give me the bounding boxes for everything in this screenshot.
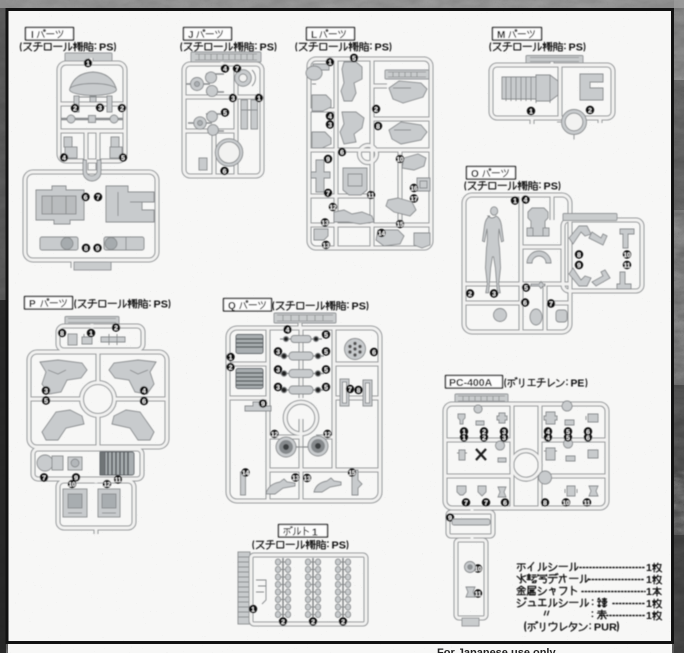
svg-text:O: O: [471, 169, 479, 180]
vertical bars right: [241, 100, 258, 129]
svg-text:L: L: [311, 30, 317, 41]
svg-text:8: 8: [376, 123, 380, 130]
svg-text:1: 1: [462, 435, 466, 442]
svg-text:2: 2: [588, 107, 592, 114]
svg-text:1: 1: [646, 598, 652, 610]
svg-text:13: 13: [322, 242, 330, 249]
svg-text:5: 5: [566, 435, 570, 442]
tag: [65, 53, 112, 61]
svg-text:5: 5: [223, 110, 227, 117]
svg-text:6: 6: [586, 435, 590, 442]
svg-text:1: 1: [312, 528, 318, 539]
bottom small parts: [494, 309, 568, 326]
svg-text:2: 2: [341, 619, 345, 626]
disc part: [345, 339, 366, 360]
svg-text:11: 11: [584, 500, 591, 507]
svg-text:Q: Q: [228, 301, 236, 312]
wheels: [276, 436, 328, 457]
svg-text:12: 12: [271, 431, 279, 438]
svg-text:5: 5: [524, 285, 528, 292]
bottom-right part: [104, 237, 144, 250]
svg-text:17: 17: [410, 196, 418, 203]
svg-text:3: 3: [502, 435, 506, 442]
svg-text:3: 3: [492, 291, 496, 298]
svg-text:3: 3: [276, 367, 280, 374]
center column parts: [334, 62, 374, 224]
bottom-left part: [40, 237, 78, 250]
svg-text:4: 4: [328, 113, 332, 120]
svg-text:8: 8: [577, 252, 581, 259]
X part: [476, 449, 486, 460]
arrow part: [531, 282, 545, 289]
svg-text:4: 4: [286, 327, 290, 334]
bottom window parts: [63, 489, 120, 517]
svg-text:10: 10: [68, 481, 76, 488]
svg-text:1: 1: [646, 562, 652, 574]
svg-text:12: 12: [103, 481, 111, 488]
svg-text:6: 6: [142, 398, 146, 405]
svg-text:10: 10: [396, 156, 404, 163]
svg-text:12: 12: [329, 204, 337, 211]
svg-text:3: 3: [276, 349, 280, 356]
svg-text:11: 11: [115, 477, 122, 484]
big left part: [36, 186, 84, 224]
svg-text:1: 1: [257, 95, 261, 102]
svg-text:5: 5: [324, 349, 328, 356]
svg-text:5: 5: [352, 55, 356, 62]
cylinder feet L/R: [64, 137, 122, 158]
svg-text:2: 2: [374, 106, 378, 113]
svg-text:PUR: PUR: [594, 622, 617, 634]
torso part: [527, 208, 549, 236]
svg-text:2: 2: [482, 435, 486, 442]
left big part: [502, 75, 558, 103]
svg-text:6: 6: [503, 500, 507, 507]
svg-text:2: 2: [73, 105, 77, 112]
lighten top band + upper-right: [0, 0, 684, 8]
label L: [307, 28, 355, 41]
bolt columns: [275, 558, 350, 620]
svg-text:6: 6: [523, 300, 527, 307]
svg-text:5: 5: [324, 367, 328, 374]
svg-text:3: 3: [231, 95, 235, 102]
small part bottom-left: [199, 158, 207, 170]
svg-text:4: 4: [524, 197, 528, 204]
label I: [26, 28, 74, 41]
top small parts: [68, 334, 125, 345]
svg-text:2: 2: [229, 364, 233, 371]
right column parts: [376, 81, 430, 248]
svg-text:J: J: [188, 30, 194, 41]
svg-text:3: 3: [276, 384, 280, 391]
svg-text:15: 15: [396, 221, 404, 228]
arch part: [527, 251, 551, 263]
svg-text:10: 10: [562, 500, 570, 507]
left bracket part: [245, 402, 271, 411]
label P: [25, 297, 73, 310]
right chevron arms: [569, 226, 610, 286]
svg-text:I: I: [31, 30, 34, 41]
svg-text:6: 6: [84, 194, 88, 201]
svg-text:2: 2: [120, 105, 124, 112]
svg-text:7: 7: [348, 386, 352, 393]
label M: [493, 28, 542, 41]
right bars: [340, 379, 372, 406]
svg-text:9: 9: [326, 156, 330, 163]
ring part top right: [235, 70, 256, 87]
quadrant leg parts: [40, 360, 156, 440]
svg-text:7: 7: [96, 194, 100, 201]
svg-text:11: 11: [368, 192, 375, 199]
svg-text:1: 1: [646, 610, 652, 622]
bead rows: [278, 336, 324, 395]
svg-text:7: 7: [235, 66, 239, 73]
svg-text:1: 1: [251, 606, 255, 613]
svg-text:9: 9: [261, 401, 265, 408]
svg-text:8: 8: [84, 245, 88, 252]
right small part: [352, 470, 362, 495]
svg-text:7: 7: [464, 500, 468, 507]
right cols parts: [539, 401, 598, 496]
lower mid parts: [37, 455, 82, 471]
svg-text:13: 13: [292, 475, 300, 482]
dark cylinders: [236, 335, 263, 389]
label Q: [224, 299, 272, 312]
svg-text:6: 6: [372, 349, 376, 356]
svg-text:1: 1: [89, 330, 93, 337]
svg-text:4: 4: [546, 435, 550, 442]
lower small circles: [465, 562, 476, 598]
svg-text:PC-400A: PC-400A: [449, 377, 493, 389]
svg-text:9: 9: [577, 262, 581, 269]
label J: [184, 28, 232, 41]
dotted leaders + counts: [580, 568, 645, 616]
svg-text:7: 7: [484, 500, 488, 507]
label PC-400A: [446, 376, 503, 389]
svg-text:2: 2: [281, 619, 285, 626]
svg-text:10: 10: [623, 252, 631, 259]
cluster top: [186, 72, 224, 97]
svg-text:7: 7: [549, 301, 553, 308]
U tube part: [83, 160, 101, 181]
ruler strip: [238, 552, 250, 624]
svg-text:2: 2: [468, 291, 472, 298]
svg-text:7: 7: [326, 190, 330, 197]
svg-text:3: 3: [328, 122, 332, 129]
svg-text:8: 8: [357, 387, 361, 394]
svg-text:11: 11: [624, 262, 631, 269]
svg-text:1: 1: [529, 108, 533, 115]
svg-text:For Japanese use only: For Japanese use only: [437, 647, 556, 653]
svg-text:8: 8: [543, 500, 547, 507]
label O: [467, 167, 516, 180]
svg-text:11: 11: [475, 591, 482, 598]
svg-text:1: 1: [646, 574, 652, 586]
svg-text:5: 5: [324, 384, 328, 391]
svg-text:6: 6: [340, 149, 344, 156]
small hook part left: [256, 580, 266, 604]
svg-text:2: 2: [114, 325, 118, 332]
svg-text:4: 4: [142, 388, 146, 395]
bottom tab: [74, 262, 111, 270]
dark cylinder: [100, 452, 134, 475]
svg-text:1: 1: [229, 354, 233, 361]
svg-text:1: 1: [86, 60, 90, 67]
shaft part: [452, 519, 490, 525]
figure: [483, 207, 504, 293]
svg-text:5: 5: [121, 155, 125, 162]
svg-text:12: 12: [324, 431, 332, 438]
svg-text:16: 16: [410, 185, 418, 192]
svg-text:14: 14: [242, 470, 250, 477]
svg-text:4: 4: [223, 66, 227, 73]
svg-text:15: 15: [348, 470, 356, 477]
right strip darker patches: [674, 80, 684, 210]
svg-text:5: 5: [44, 398, 48, 405]
left vertical bar part: [241, 472, 246, 495]
right edge parts: [617, 229, 634, 289]
svg-text:1: 1: [328, 59, 332, 66]
svg-text:13: 13: [321, 220, 329, 227]
svg-text:M: M: [497, 30, 505, 41]
bottom birds: [266, 478, 341, 494]
svg-text:1: 1: [513, 198, 517, 205]
svg-text:14: 14: [378, 230, 386, 237]
left dark strip: [0, 0, 6, 653]
left column parts: [306, 64, 331, 240]
svg-text:P: P: [29, 299, 36, 310]
svg-text:13: 13: [303, 475, 311, 482]
right part: [580, 74, 603, 100]
svg-text:4: 4: [62, 155, 66, 162]
big right part: [106, 186, 154, 222]
svg-text:7: 7: [42, 475, 46, 482]
svg-text:3: 3: [44, 388, 48, 395]
svg-text:9: 9: [96, 245, 100, 252]
small polycap parts: left cols: [457, 405, 507, 497]
label bolt1: [279, 525, 328, 538]
big ring: [215, 139, 243, 167]
bottom circle: [557, 110, 587, 140]
svg-text:5: 5: [324, 332, 328, 339]
svg-text:3: 3: [98, 105, 102, 112]
svg-text:8: 8: [60, 330, 64, 337]
cluster mid: [188, 111, 224, 135]
knob rod: [61, 115, 123, 123]
dome part: [70, 72, 117, 112]
svg-text:2: 2: [311, 619, 315, 626]
svg-text:1: 1: [646, 586, 652, 598]
svg-text:6: 6: [223, 168, 227, 175]
